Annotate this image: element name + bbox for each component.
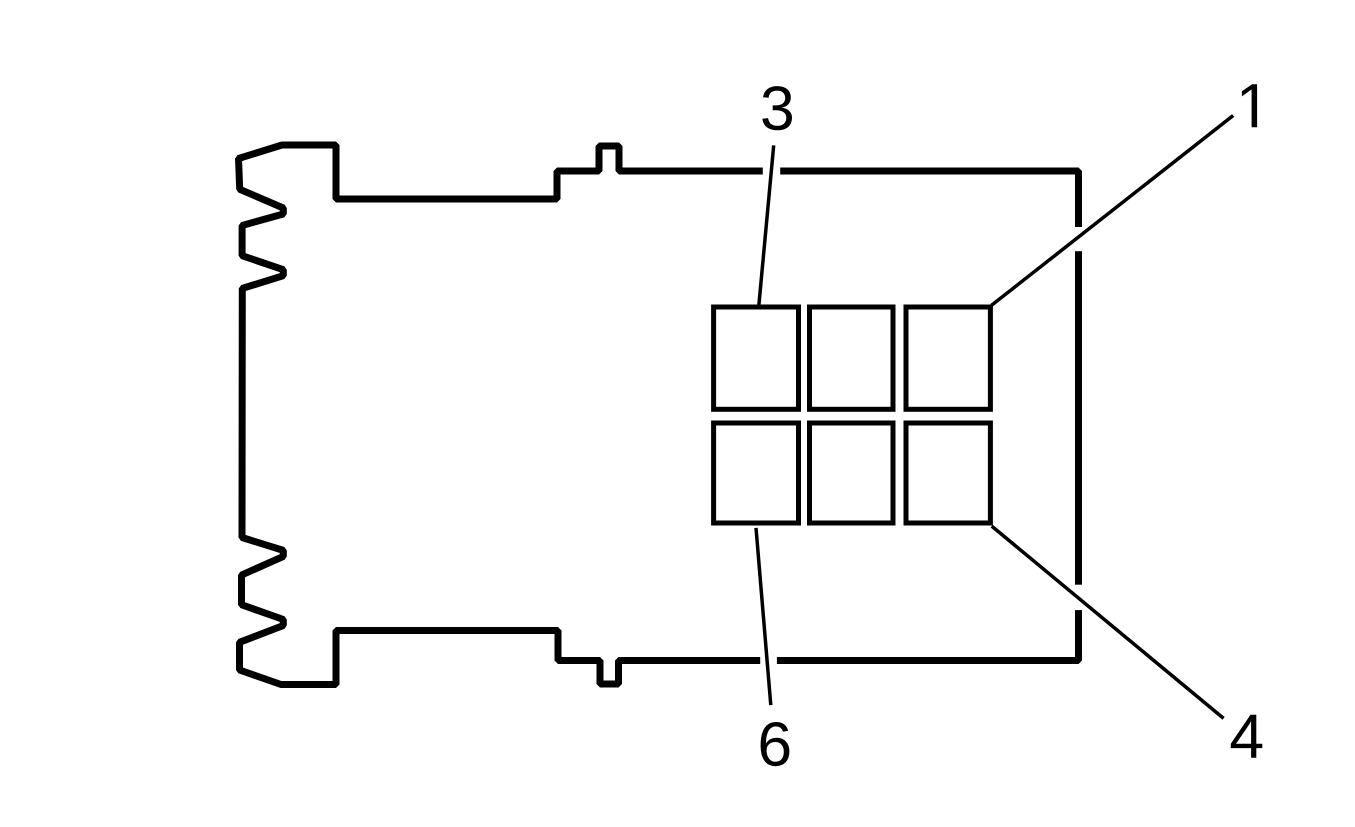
connector body outline xyxy=(239,145,1079,685)
leader line for label 6 xyxy=(756,528,771,705)
terminal cavity 2 (top-middle) xyxy=(810,307,894,409)
leader line for label 4 xyxy=(992,526,1224,718)
terminal cavity 3 (top-left) xyxy=(714,307,799,409)
gap in top edge where leader 3 crosses xyxy=(763,167,780,177)
terminal cavity 6 (bottom-left) xyxy=(714,423,799,523)
label 6 xyxy=(761,722,790,766)
gap in right edge where leader 1 crosses xyxy=(1074,227,1085,251)
label 3 xyxy=(762,86,792,130)
leader line for label 1 xyxy=(991,116,1233,306)
gap in right edge where leader 4 crosses xyxy=(1074,585,1085,610)
label 1 xyxy=(1242,84,1257,127)
label 4 xyxy=(1231,715,1263,758)
terminal cavity 5 (bottom-middle) xyxy=(810,423,894,523)
gap in bottom edge where leader 6 crosses xyxy=(760,656,777,666)
terminal cavity 4 (bottom-right) xyxy=(906,423,990,523)
terminal cavity 1 (top-right) xyxy=(906,307,990,409)
leader line for label 3 xyxy=(759,145,774,304)
